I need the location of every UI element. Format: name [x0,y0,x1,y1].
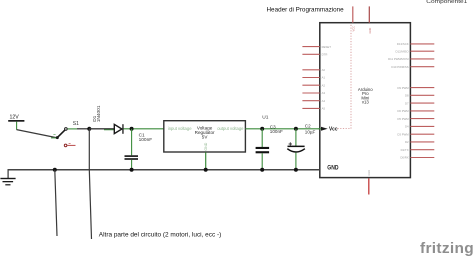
svg-text:D11 PWM/MOSI: D11 PWM/MOSI [388,57,409,61]
svg-text:DTR: DTR [322,53,328,57]
node B junction (C1 top) [130,127,134,131]
svg-text:C2: C2 [305,124,311,129]
fritzing logo [420,240,474,257]
svg-text:12V: 12V [10,115,20,121]
svg-text:D0/RX: D0/RX [400,156,408,160]
svg-text:GND: GND [367,170,371,176]
svg-text:v13: v13 [362,100,370,105]
capacitor C1 100nF [125,129,153,170]
svg-text:D5 PWM: D5 PWM [397,117,409,121]
text altra parte del circuito [99,231,222,238]
svg-text:100nF: 100nF [270,129,283,134]
ratsnest dashed wire header to Vcc [338,24,352,129]
wire regulator output to Vcc [245,128,321,130]
svg-text:100nF: 100nF [139,137,153,143]
svg-text:GND: GND [368,28,372,34]
svg-text:D10 PWM/SS: D10 PWM/SS [391,65,408,69]
svg-text:D6 PWM: D6 PWM [397,109,409,113]
svg-text:A0: A0 [322,68,326,72]
svg-text:fritzing: fritzing [420,240,474,257]
ground [0,178,15,186]
arduino Componente1 box [320,23,411,178]
bus junction dots [53,168,298,172]
switch S1 [51,121,79,147]
wire diode to regulator input [124,128,164,130]
capacitor C3 100nF [256,124,283,169]
wire node A to diode [89,129,114,130]
svg-text:VCC: VCC [351,26,355,32]
capacitor C2 10uF polarized [287,124,315,170]
ground bus wire [8,169,320,178]
diode D1 1N4001 [92,105,123,134]
svg-text:S1: S1 [73,121,79,127]
wire to other circuit 1 [55,170,57,236]
svg-text:D9 PWM: D9 PWM [397,86,409,90]
svg-text:GND: GND [204,142,208,150]
svg-text:U1: U1 [262,115,268,121]
voltage regulator 5V [164,121,246,170]
svg-text:D12/MISO: D12/MISO [396,49,410,53]
svg-text:Vcc: Vcc [329,126,338,132]
arduino bottom GND pin [367,170,371,195]
svg-text:input voltage: input voltage [168,126,192,131]
arduino left pins [302,45,331,111]
svg-text:1N4001: 1N4001 [96,105,102,122]
svg-text:5V: 5V [202,135,209,140]
arduino top header pins [351,6,372,33]
arduino right pins [388,42,434,160]
svg-text:D2: D2 [405,140,409,144]
svg-text:Componente1: Componente1 [426,0,467,5]
wire switch to node A [77,128,89,130]
svg-text:D7: D7 [405,101,409,105]
svg-text:A5: A5 [322,107,326,111]
node C junction (C3 top) [260,115,269,131]
text Componente1 [426,0,467,5]
svg-text:A3: A3 [322,91,326,95]
svg-text:D13/SCK: D13/SCK [397,42,409,46]
text header di programmazione [267,7,344,14]
svg-text:A4: A4 [322,99,326,103]
svg-text:D1/TX: D1/TX [401,148,409,152]
node D junction (C2 top) [294,127,298,131]
svg-text:D4: D4 [405,125,409,129]
svg-text:output voltage: output voltage [217,126,244,131]
svg-text:GND: GND [327,164,339,171]
svg-text:Altra parte del circuito (2 mo: Altra parte del circuito (2 motori, luci… [99,231,222,238]
svg-text:D8: D8 [405,94,409,98]
node A junction [87,127,91,131]
wire node A down through bus to other circuit 2 [89,129,91,239]
svg-text:Header di Programmazione: Header di Programmazione [267,7,344,14]
svg-text:A2: A2 [322,83,326,87]
svg-text:D3 PWM: D3 PWM [397,132,409,136]
svg-text:A1: A1 [322,76,326,80]
Vcc arrow into arduino [319,126,338,132]
svg-text:10µF: 10µF [305,129,316,134]
battery 12V [8,115,24,130]
wire battery to switch [17,130,57,138]
svg-text:RESET: RESET [322,45,332,49]
